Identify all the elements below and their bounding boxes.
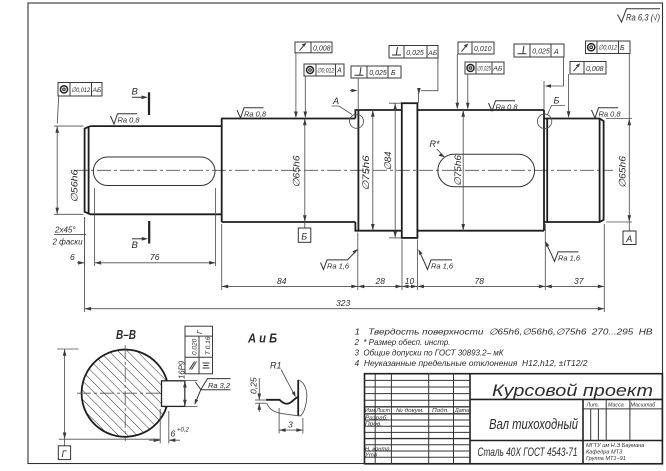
svg-text:Ra 1,6: Ra 1,6 — [431, 261, 454, 270]
title block right header cells (Lit Massa Masshtab) — [583, 399, 662, 440]
svg-text:2x45°: 2x45° — [54, 226, 76, 235]
technical notes — [354, 327, 653, 369]
svg-text:Группа МТ1–91: Группа МТ1–91 — [586, 456, 626, 462]
shaft section S2 d65h6 outline — [222, 119, 356, 223]
keyway depth dimension 6+0.2 — [149, 409, 190, 444]
svg-text:Утв: Утв — [365, 453, 377, 459]
dimension 6 (chamfer) and 76 (keyway length) — [70, 188, 216, 266]
title block left table rows — [365, 380, 471, 457]
tolerance frame F2 runout 0.008 — [294, 42, 332, 118]
svg-text:0,010: 0,010 — [474, 46, 492, 53]
shaft section S5 d75h6 outline — [417, 110, 544, 231]
svg-text:АБ: АБ — [492, 66, 503, 73]
svg-text:37: 37 — [574, 276, 584, 286]
title block MGTU cell text — [586, 443, 644, 462]
svg-text:∅75h6: ∅75h6 — [361, 155, 372, 191]
svg-text:Кафедра МТ3: Кафедра МТ3 — [586, 450, 623, 456]
diameter dimension d65h6 S6 with datum box A — [606, 117, 636, 245]
svg-text:Б: Б — [391, 70, 396, 77]
section plane mark B top — [132, 87, 150, 116]
svg-text:АБ: АБ — [427, 50, 438, 57]
svg-text:Изм.Лист: Изм.Лист — [365, 408, 391, 414]
svg-text:Б: Б — [301, 232, 307, 242]
svg-text:323: 323 — [336, 298, 350, 308]
keyway slot S5 — [438, 154, 535, 187]
section B-B centerlines — [77, 345, 174, 441]
detail dimension 0.25 — [249, 377, 267, 412]
svg-text:∅0,025: ∅0,025 — [477, 66, 491, 73]
svg-text:Ra 0,8: Ra 0,8 — [244, 110, 267, 119]
svg-text:∅0,012: ∅0,012 — [71, 87, 90, 94]
svg-text:2 * Размер обесп. инстр.: 2 * Размер обесп. инстр. — [354, 337, 451, 347]
svg-text:Пров.: Пров. — [365, 422, 382, 428]
overall dimension 323 — [85, 217, 605, 312]
shaft centerline — [74, 169, 613, 171]
roughness Ra 0,8 over S5 — [489, 101, 519, 112]
svg-text:Масса: Масса — [608, 402, 624, 408]
svg-text:0,025: 0,025 — [532, 49, 550, 56]
keyway width dimension 16P9 — [178, 360, 198, 406]
svg-text:2 фаски: 2 фаски — [52, 238, 84, 247]
svg-text:Ra 1,6: Ra 1,6 — [558, 253, 581, 262]
tolerance frame F9 concentricity 0.012 B — [586, 41, 631, 117]
roughness Ra 1,6 below S6 with leader — [545, 241, 581, 262]
title block left table columns — [375, 374, 453, 464]
svg-text:6: 6 — [171, 429, 176, 439]
roughness Ra 1,6 below S3 with leader — [321, 249, 358, 270]
svg-text:Ra 1,6: Ra 1,6 — [327, 261, 350, 270]
svg-text:∅65h6: ∅65h6 — [618, 155, 629, 188]
tolerance frame F10 runout 0.008 — [567, 62, 606, 119]
diameter dimension d84 collar — [383, 103, 401, 238]
svg-text:∅65h6: ∅65h6 — [292, 155, 303, 188]
svg-text:0,008: 0,008 — [586, 66, 604, 73]
tolerance frame F7 concentricity 0.025 AB — [465, 62, 504, 110]
detail groove profile — [266, 380, 307, 416]
svg-text:3: 3 — [288, 420, 293, 430]
roughness Ra 3,2 on keyway with leader — [195, 379, 231, 405]
svg-text:Б: Б — [620, 45, 625, 52]
section B-B hatched circle — [82, 350, 168, 437]
roughness Ra 1,6 below S5 with leader — [418, 249, 454, 270]
svg-text:0,25: 0,25 — [249, 377, 259, 394]
diameter dimension d75h6 S5 — [453, 110, 465, 231]
keyway tolerance frame (parallelism 0.020 / symmetry T 0.16, datum G) rotated — [185, 326, 213, 374]
roughness Ra 0,8 over S2 — [237, 108, 267, 119]
svg-text:0,025: 0,025 — [369, 70, 387, 77]
detail dimension 3 — [279, 408, 303, 434]
svg-text:R1: R1 — [270, 361, 282, 371]
detail radius R1 — [270, 361, 296, 398]
shaft section S3 d75h6 outline — [355, 110, 401, 231]
svg-text:B: B — [132, 240, 139, 251]
svg-text:МГТУ им Н.Э Баумана: МГТУ им Н.Э Баумана — [586, 443, 644, 449]
svg-text:Вал тихоходный: Вал тихоходный — [489, 416, 578, 433]
svg-text:3 Общие допуски по ГОСТ 30893: 3 Общие допуски по ГОСТ 30893.2– мК — [355, 348, 505, 358]
tolerance frame F5 perpendicularity 0.025 AB — [389, 46, 438, 104]
svg-text:∅84: ∅84 — [383, 152, 394, 171]
bottom dimensions 84 28 10 78 37 — [222, 224, 605, 290]
title block outer frame — [365, 374, 663, 464]
svg-text:∅75h6: ∅75h6 — [453, 154, 464, 186]
title block left table labels — [365, 408, 469, 458]
general roughness mark Ra 6,3 top right — [618, 9, 661, 23]
svg-text:B: B — [132, 87, 139, 98]
svg-text:Подп.: Подп. — [432, 408, 449, 414]
svg-text:Курсовой проект: Курсовой проект — [492, 381, 653, 400]
svg-text:∅0,012: ∅0,012 — [598, 45, 617, 52]
tolerance frame F8 perpendicularity 0.025 A — [514, 44, 564, 110]
svg-text:Разраб.: Разраб. — [365, 415, 388, 421]
svg-text:6: 6 — [70, 252, 75, 262]
svg-text:0,025: 0,025 — [406, 50, 424, 57]
svg-text:T 0,16: T 0,16 — [205, 336, 212, 355]
svg-text:0,020: 0,020 — [192, 338, 199, 355]
svg-text:+0,2: +0,2 — [177, 428, 190, 434]
tolerance frame F3 concentricity 0.012 A — [304, 64, 345, 118]
collar d84 outline — [402, 103, 418, 238]
keyway radius label R* — [430, 139, 445, 157]
roughness Ra 0,8 over S6 — [592, 108, 622, 119]
svg-text:А и Б: А и Б — [247, 331, 277, 345]
svg-text:А: А — [625, 234, 632, 244]
svg-text:Ra 3,2: Ra 3,2 — [208, 381, 231, 390]
chamfer note 2x45 2 faski — [52, 226, 87, 247]
svg-text:№ докум.: № докум. — [396, 408, 424, 414]
datum G dimension line and box — [57, 349, 160, 460]
svg-text:1 Твердость поверхности ∅65: 1 Твердость поверхности ∅65h6,∅56h6,∅75h… — [355, 327, 653, 337]
datum surface circle A on shoulder — [332, 96, 364, 128]
svg-text:0,008: 0,008 — [313, 46, 331, 53]
svg-text:А: А — [336, 68, 342, 75]
svg-text:∅56h6: ∅56h6 — [70, 169, 81, 203]
shaft section S6 d65h6 outline — [544, 119, 604, 223]
svg-text:АБ: АБ — [92, 87, 102, 94]
svg-text:Ra 0,8: Ra 0,8 — [118, 116, 141, 125]
svg-text:B–B: B–B — [116, 328, 136, 342]
diameter dimension d75h6 S3 — [361, 110, 375, 231]
svg-text:Ra 0,8: Ra 0,8 — [496, 103, 519, 112]
shaft section S1 d56h6 outline — [85, 126, 222, 214]
svg-text:Ra 6,3 (√): Ra 6,3 (√) — [626, 13, 660, 23]
svg-text:84: 84 — [277, 276, 287, 286]
svg-text:R*: R* — [430, 139, 440, 149]
tolerance frame F1 concentricity 0.012 AB — [57, 83, 102, 124]
svg-text:Ra 0,8: Ra 0,8 — [599, 110, 622, 119]
svg-text:10: 10 — [405, 276, 415, 286]
svg-text:А: А — [553, 49, 559, 56]
tolerance frame F6 runout 0.010 — [456, 42, 495, 110]
svg-text:4 Неуказанные предельные откл: 4 Неуказанные предельные отклонения Н12,… — [355, 358, 588, 368]
svg-text:Сталь 40Х ГОСТ 4543-71: Сталь 40Х ГОСТ 4543-71 — [478, 445, 578, 459]
roughness Ra 0,8 over S1 — [111, 114, 141, 125]
svg-text:Лит.: Лит. — [586, 402, 599, 408]
svg-text:78: 78 — [475, 276, 485, 286]
section plane mark B bottom — [132, 221, 150, 251]
tolerance frame F4 perpendicularity 0.025 B — [350, 66, 401, 110]
diameter dimension d65h6 S2 with datum box B — [292, 119, 311, 243]
svg-text:А: А — [332, 96, 339, 106]
svg-text:76: 76 — [150, 252, 160, 262]
svg-text:Дата: Дата — [454, 408, 469, 414]
diameter dimension d56h6 — [54, 126, 84, 214]
svg-text:28: 28 — [375, 276, 386, 286]
svg-text:Масштаб: Масштаб — [631, 402, 657, 408]
datum surface circle B on shoulder — [537, 96, 565, 129]
svg-text:∅0,012: ∅0,012 — [317, 68, 334, 75]
svg-text:Н. контр.: Н. контр. — [365, 446, 391, 452]
section B-B keyway profile — [162, 381, 185, 407]
keyway slot S1 — [93, 157, 215, 186]
svg-text:Б: Б — [554, 96, 560, 106]
